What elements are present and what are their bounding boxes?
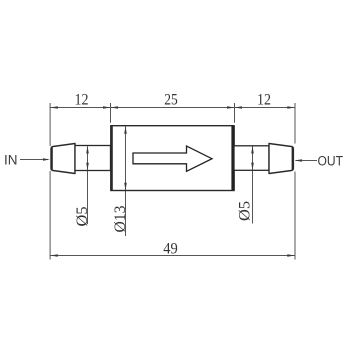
IN leader line [20,159,48,161]
svg-text:12: 12 [75,92,89,109]
svg-text:25: 25 [164,92,178,109]
left cone tip face thick edge [51,147,53,169]
svg-text:49: 49 [163,240,178,257]
phi5 right dimension line [252,146,254,224]
phi5 left dim arrows in cylinder [87,146,89,170]
right barb cone [269,144,293,174]
top dimension line [50,107,295,109]
bottom dimension line 49 [50,255,295,257]
phi5 left dimension line [87,146,89,224]
top dim arrow at x=294.5 pointing right [287,106,295,109]
phi13 dimension line [125,126,127,236]
left barb cone [51,144,75,174]
body right edge thick [231,126,234,190]
phi5 right dim arrows in cylinder [252,146,254,170]
svg-text:12: 12 [257,92,271,109]
top dim arrow at x=50 pointing left [50,106,58,109]
top dim arrows at x=234.5 [227,106,235,109]
svg-text:OUT: OUT [318,153,344,168]
body left edge thick [110,126,112,191]
svg-text:IN: IN [4,153,18,168]
extension line body-left (x=110) [110,103,112,123]
OUT leader line [296,160,318,162]
extension line right lower (x=294) [294,172,296,260]
phi13 line inside body [125,126,127,190]
extension line right upper (x=294) [294,103,296,144]
svg-text:Ø5: Ø5 [237,201,254,221]
svg-text:Ø13: Ø13 [112,206,129,233]
valve body [111,126,234,191]
right cylinder [234,146,269,171]
svg-text:Ø5: Ø5 [74,207,91,227]
right cone tip face thick edge [292,147,294,169]
top dim arrows at x=110.5 [103,106,111,109]
extension line left lower (x=50) [49,171,51,260]
extension line body-right (x=234.5) [234,103,236,123]
left cylinder [75,146,111,171]
flow arrow [133,146,212,171]
extension line left upper (x=50) [49,103,51,146]
